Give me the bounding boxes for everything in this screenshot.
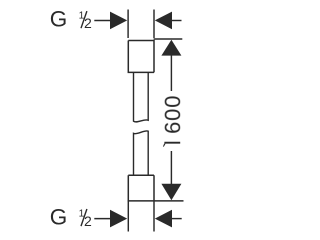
wire: bottom-left leader line	[94, 218, 112, 220]
wire: bottom-right arrow tail	[172, 218, 182, 220]
bottom-right extension line	[153, 201, 155, 232]
wire: top-right arrow tail	[172, 20, 182, 22]
top hose nut	[128, 41, 154, 73]
wire: top-left leader line	[94, 20, 112, 22]
value label 1600: digit 1 drawn as path (no foot serif), 600 as text	[163, 142, 180, 147]
svg-text:G: G	[50, 205, 68, 230]
wire: bottom reference line for 1600 dimension	[128, 200, 184, 202]
bottom-left extension line	[127, 201, 129, 232]
top-left dimension arrow (points right)	[110, 12, 127, 30]
svg-text:600: 600	[160, 95, 185, 134]
wire: vertical dimension line lower segment	[170, 151, 172, 185]
bottom-left dimension arrow (points right)	[110, 210, 127, 228]
wire: top reference line for 1600 dimension	[154, 38, 183, 40]
svg-text:G: G	[50, 7, 68, 32]
label G top	[50, 7, 68, 32]
hose lower segment	[134, 131, 149, 175]
label 1/2 top numerator	[79, 10, 92, 31]
top-left extension line	[127, 10, 129, 39]
wire: vertical dimension line upper segment	[170, 55, 172, 91]
top-right extension line	[153, 10, 155, 39]
top-right dimension arrow (points left)	[155, 12, 172, 30]
vertical dimension arrow down	[161, 184, 181, 200]
bottom hose nut	[128, 175, 154, 201]
fraction slash bottom	[81, 209, 87, 226]
bottom-right dimension arrow (points left)	[155, 210, 172, 228]
hose upper segment	[134, 72, 149, 122]
label 1/2 bottom	[79, 208, 92, 229]
label G bottom	[50, 205, 68, 230]
fraction slash top	[81, 11, 87, 28]
vertical dimension arrow up	[161, 40, 181, 56]
